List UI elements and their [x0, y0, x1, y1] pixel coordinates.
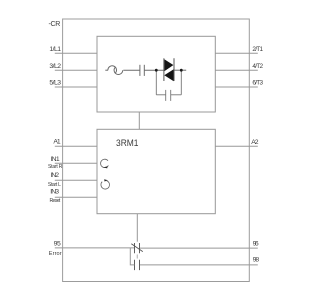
- svg-text:A1: A1: [53, 138, 61, 145]
- svg-text:IN2: IN2: [51, 172, 60, 179]
- svg-text:4/T2: 4/T2: [252, 63, 263, 70]
- svg-text:95: 95: [54, 241, 61, 248]
- svg-text:IN1: IN1: [50, 156, 59, 163]
- svg-text:A2: A2: [251, 139, 258, 146]
- svg-text:Error: Error: [49, 251, 62, 257]
- svg-text:3/L2: 3/L2: [49, 63, 61, 70]
- svg-text:96: 96: [253, 240, 259, 247]
- svg-text:Start L: Start L: [48, 182, 61, 188]
- svg-text:3RM1: 3RM1: [116, 138, 139, 148]
- svg-text:2/T1: 2/T1: [252, 46, 263, 53]
- svg-text:Start R: Start R: [48, 164, 63, 170]
- svg-text:1/L1: 1/L1: [49, 46, 61, 53]
- svg-text:98: 98: [253, 257, 260, 264]
- svg-text:6/T3: 6/T3: [252, 80, 263, 87]
- svg-text:Reset: Reset: [50, 198, 61, 204]
- svg-text:-CR: -CR: [49, 21, 61, 28]
- svg-text:IN3: IN3: [50, 189, 59, 196]
- svg-text:5/L3: 5/L3: [49, 80, 61, 87]
